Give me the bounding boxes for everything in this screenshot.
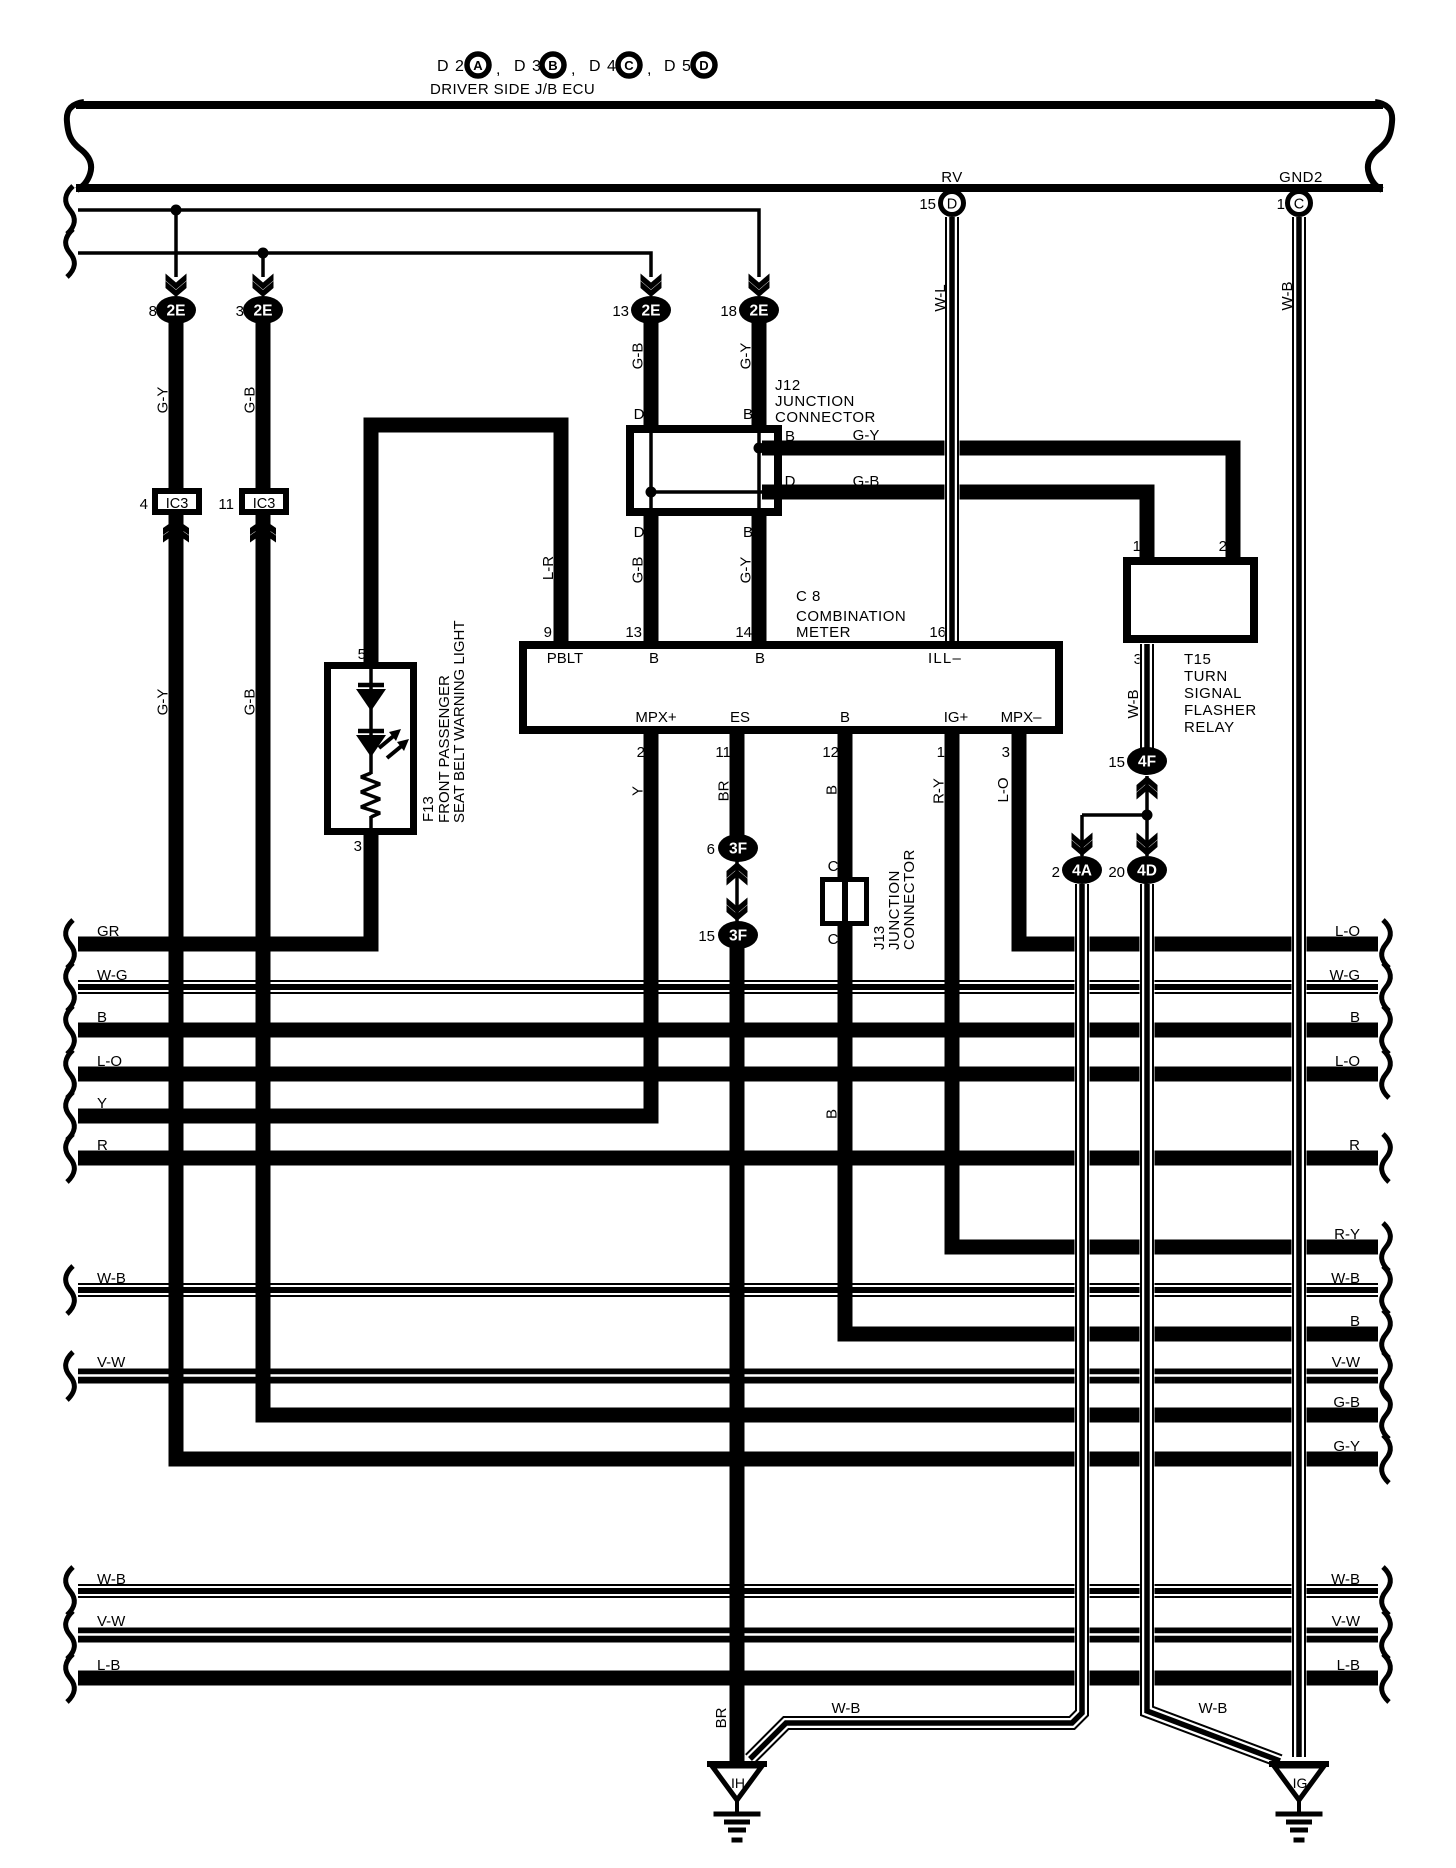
svg-text:3F: 3F <box>729 841 747 858</box>
svg-text:C 8: C 8 <box>796 588 821 605</box>
svg-text:B: B <box>755 650 765 667</box>
svg-text:D 4: D 4 <box>589 58 617 75</box>
svg-text:3: 3 <box>236 303 244 320</box>
svg-text:,: , <box>647 61 651 78</box>
svg-text:W-L: W-L <box>932 284 949 311</box>
svg-text:B: B <box>824 785 841 795</box>
svg-text:2E: 2E <box>167 303 186 320</box>
svg-text:4F: 4F <box>1138 754 1156 771</box>
svg-text:3: 3 <box>1002 744 1010 761</box>
svg-text:,: , <box>571 61 575 78</box>
svg-text:IH: IH <box>731 1775 745 1791</box>
svg-text:L-O: L-O <box>995 777 1012 802</box>
svg-text:RELAY: RELAY <box>1184 719 1235 736</box>
svg-text:BR: BR <box>716 780 733 801</box>
svg-text:IG: IG <box>1293 1775 1308 1791</box>
svg-text:18: 18 <box>720 303 737 320</box>
svg-text:5: 5 <box>358 646 366 663</box>
svg-text:1: 1 <box>937 744 945 761</box>
svg-text:F13: F13 <box>420 796 437 822</box>
svg-text:L-B: L-B <box>1337 1657 1360 1674</box>
svg-text:Y: Y <box>630 786 647 796</box>
svg-text:D: D <box>699 58 708 73</box>
svg-text:G-B: G-B <box>630 557 647 584</box>
svg-text:B: B <box>97 1009 107 1026</box>
svg-text:L-O: L-O <box>1335 923 1360 940</box>
svg-text:R-Y: R-Y <box>1334 1226 1360 1243</box>
svg-text:L-B: L-B <box>97 1657 120 1674</box>
svg-text:D 2: D 2 <box>437 58 465 75</box>
svg-text:W-B: W-B <box>1331 1270 1360 1287</box>
svg-text:11: 11 <box>715 744 731 761</box>
svg-text:D 5: D 5 <box>664 58 692 75</box>
svg-text:G-Y: G-Y <box>1333 1438 1360 1455</box>
svg-text:W-B: W-B <box>97 1571 126 1588</box>
svg-text:2: 2 <box>1052 864 1060 881</box>
svg-text:IG+: IG+ <box>944 709 969 726</box>
svg-text:9: 9 <box>544 624 552 641</box>
svg-text:B: B <box>743 406 753 423</box>
svg-text:W-G: W-G <box>1329 967 1360 984</box>
svg-text:METER: METER <box>796 624 851 641</box>
svg-text:B: B <box>785 428 795 445</box>
svg-text:2: 2 <box>637 744 645 761</box>
svg-text:G-Y: G-Y <box>155 387 172 414</box>
svg-text:G-B: G-B <box>630 343 647 370</box>
svg-text:13: 13 <box>625 624 642 641</box>
svg-text:G-B: G-B <box>853 473 880 490</box>
svg-text:MPX+: MPX+ <box>635 709 677 726</box>
svg-text:D: D <box>947 197 957 213</box>
svg-text:4: 4 <box>140 496 148 513</box>
svg-text:V-W: V-W <box>97 1613 126 1630</box>
svg-text:W-B: W-B <box>1331 1571 1360 1588</box>
svg-text:PBLT: PBLT <box>547 650 583 667</box>
svg-text:W-G: W-G <box>97 967 128 984</box>
svg-text:G-Y: G-Y <box>853 427 880 444</box>
svg-text:8: 8 <box>149 303 157 320</box>
svg-text:1: 1 <box>1277 196 1285 213</box>
svg-text:G-B: G-B <box>242 689 259 716</box>
svg-text:ILL–: ILL– <box>928 650 962 667</box>
svg-text:15: 15 <box>1108 754 1125 771</box>
svg-text:BR: BR <box>713 1707 730 1728</box>
svg-text:C: C <box>828 931 839 948</box>
svg-text:3F: 3F <box>729 928 747 945</box>
svg-text:FLASHER: FLASHER <box>1184 702 1257 719</box>
svg-text:13: 13 <box>612 303 629 320</box>
svg-text:1: 1 <box>1133 538 1141 555</box>
svg-text:D: D <box>634 524 645 541</box>
svg-text:CONNECTOR: CONNECTOR <box>901 849 918 950</box>
svg-text:B: B <box>743 524 753 541</box>
svg-text:4A: 4A <box>1072 863 1092 880</box>
svg-text:COMBINATION: COMBINATION <box>796 608 906 625</box>
svg-text:V-W: V-W <box>1332 1613 1361 1630</box>
svg-text:C: C <box>1294 197 1304 213</box>
svg-text:V-W: V-W <box>1332 1354 1361 1371</box>
svg-text:W-B: W-B <box>1279 282 1296 311</box>
svg-text:B: B <box>1350 1313 1360 1330</box>
svg-text:CONNECTOR: CONNECTOR <box>775 409 876 426</box>
svg-text:IC3: IC3 <box>253 496 276 512</box>
svg-text:B: B <box>840 709 850 726</box>
svg-text:J12: J12 <box>775 377 801 394</box>
svg-text:2: 2 <box>1219 538 1227 555</box>
svg-text:B: B <box>1350 1009 1360 1026</box>
svg-text:C: C <box>828 858 839 875</box>
svg-text:R: R <box>1349 1137 1360 1154</box>
svg-text:2E: 2E <box>750 303 769 320</box>
svg-text:C: C <box>624 58 634 73</box>
svg-text:3: 3 <box>354 838 362 855</box>
svg-text:G-Y: G-Y <box>738 557 755 584</box>
svg-text:B: B <box>649 650 659 667</box>
svg-text:W-B: W-B <box>1199 1700 1228 1717</box>
svg-text:GR: GR <box>97 923 120 940</box>
svg-text:,: , <box>496 61 500 78</box>
svg-text:L-O: L-O <box>1335 1053 1360 1070</box>
svg-text:L-O: L-O <box>97 1053 122 1070</box>
svg-text:W-B: W-B <box>1125 690 1142 719</box>
svg-text:D: D <box>785 473 796 490</box>
svg-text:15: 15 <box>698 928 715 945</box>
svg-text:20: 20 <box>1108 864 1125 881</box>
svg-text:2E: 2E <box>254 303 273 320</box>
svg-text:A: A <box>473 58 483 73</box>
svg-text:11: 11 <box>218 496 234 513</box>
svg-text:B: B <box>824 1109 841 1119</box>
svg-text:4D: 4D <box>1137 863 1157 880</box>
svg-text:G-Y: G-Y <box>155 689 172 716</box>
svg-text:GND2: GND2 <box>1279 169 1323 186</box>
svg-text:RV: RV <box>941 169 963 186</box>
svg-text:TURN: TURN <box>1184 668 1228 685</box>
svg-text:T15: T15 <box>1184 651 1211 668</box>
svg-text:G-B: G-B <box>1333 1394 1360 1411</box>
svg-text:ES: ES <box>730 709 750 726</box>
svg-text:V-W: V-W <box>97 1354 126 1371</box>
svg-text:R-Y: R-Y <box>931 778 948 804</box>
svg-text:L-R: L-R <box>540 556 557 580</box>
svg-text:D 3: D 3 <box>514 58 542 75</box>
svg-text:SEAT BELT WARNING LIGHT: SEAT BELT WARNING LIGHT <box>451 620 468 823</box>
svg-text:G-Y: G-Y <box>738 343 755 370</box>
svg-text:2E: 2E <box>642 303 661 320</box>
svg-text:15: 15 <box>919 196 936 213</box>
svg-text:DRIVER SIDE J/B ECU: DRIVER SIDE J/B ECU <box>430 81 595 98</box>
svg-text:12: 12 <box>822 744 839 761</box>
svg-text:W-B: W-B <box>97 1270 126 1287</box>
svg-text:R: R <box>97 1137 108 1154</box>
svg-text:14: 14 <box>735 624 752 641</box>
svg-text:G-B: G-B <box>242 387 259 414</box>
svg-text:Y: Y <box>97 1095 107 1112</box>
svg-text:IC3: IC3 <box>166 496 189 512</box>
svg-text:16: 16 <box>929 624 946 641</box>
svg-text:SIGNAL: SIGNAL <box>1184 685 1242 702</box>
svg-text:MPX–: MPX– <box>1001 709 1043 726</box>
svg-text:JUNCTION: JUNCTION <box>775 393 855 410</box>
svg-text:W-B: W-B <box>832 1700 861 1717</box>
svg-text:D: D <box>634 406 645 423</box>
svg-text:B: B <box>548 58 557 73</box>
svg-text:6: 6 <box>707 841 715 858</box>
